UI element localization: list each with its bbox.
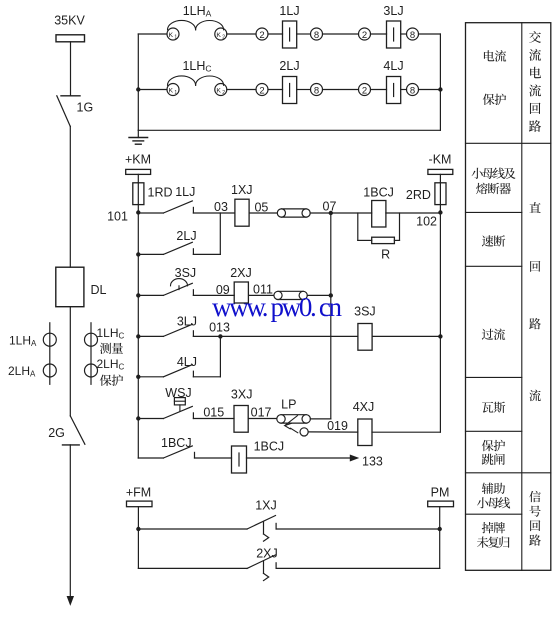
label 3LJ: [177, 314, 197, 328]
terminal 2: [359, 28, 371, 41]
label 1LJ: [175, 185, 195, 199]
label 1XJ: [231, 183, 253, 197]
svg-text:R: R: [381, 248, 390, 262]
label 1BCJ: [254, 439, 285, 453]
contact 3SJ time-delay: [163, 279, 193, 296]
node: [136, 527, 140, 531]
wire: [193, 335, 358, 337]
svg-text:1LHA: 1LHA: [183, 4, 212, 18]
label 4LJ: [177, 355, 197, 369]
connecting link LP open: [277, 415, 311, 436]
circuit breaker DL: [56, 267, 84, 307]
svg-text:102: 102: [416, 215, 437, 229]
wire: [249, 294, 274, 296]
label 3LJ: [383, 4, 403, 18]
label 2LJ: [279, 59, 299, 73]
wire feeder outgoing arrow: [67, 445, 73, 605]
wire: [394, 213, 399, 240]
svg-text:2XJ: 2XJ: [230, 266, 252, 280]
label 2LHA: [8, 364, 36, 379]
label 2LHc 保护: [97, 357, 125, 386]
terminal 8: [311, 28, 323, 41]
label 2XJ: [256, 546, 278, 560]
svg-text:PM: PM: [431, 486, 450, 500]
bus PM: [428, 486, 454, 529]
wire: [137, 34, 139, 130]
label 05: [254, 201, 268, 215]
CT secondary 1LHc: [167, 76, 227, 96]
wire node03 branch: [219, 213, 221, 254]
wire: [138, 529, 439, 568]
svg-text:1LHA: 1LHA: [9, 333, 37, 348]
label 1G: [77, 101, 94, 115]
wire: [227, 89, 256, 91]
wire: [310, 212, 372, 214]
contact 3LJ: [163, 324, 193, 336]
svg-text:K: K: [169, 87, 174, 94]
svg-text:101: 101: [107, 210, 128, 224]
label 1LHA: [9, 333, 37, 348]
svg-text:1RD: 1RD: [148, 186, 173, 200]
wire: [69, 307, 71, 416]
label 3SJ: [354, 305, 376, 319]
wire: [219, 336, 221, 376]
label 011: [253, 283, 273, 297]
svg-text:DL: DL: [91, 283, 107, 297]
svg-text:3LJ: 3LJ: [177, 314, 197, 328]
svg-text:2: 2: [222, 90, 225, 96]
svg-text:+FM: +FM: [126, 486, 151, 500]
svg-text:2LJ: 2LJ: [176, 229, 196, 243]
relay 1LJ coil: [283, 21, 297, 48]
svg-text:1XJ: 1XJ: [231, 183, 253, 197]
contact 1BCJ: [163, 446, 194, 458]
wire: [138, 567, 247, 569]
wire: [195, 457, 232, 459]
node: [438, 334, 442, 338]
wire mid bus: [330, 213, 332, 419]
label 013: [209, 321, 230, 335]
relay 2LJ coil: [283, 77, 297, 104]
wire: [371, 89, 387, 91]
svg-text:+KM: +KM: [125, 153, 151, 167]
CT 2LHc: [85, 364, 98, 377]
wire: [310, 418, 330, 420]
svg-text:www. pw0. cn: www. pw0. cn: [212, 292, 343, 322]
svg-text:35KV: 35KV: [54, 14, 85, 28]
disconnector 2G: [63, 416, 85, 445]
svg-text:K: K: [169, 32, 174, 39]
label 过流: [482, 328, 505, 340]
label 1LJ: [279, 4, 299, 18]
svg-text:017: 017: [251, 406, 272, 420]
CT 2LHA: [43, 364, 56, 377]
wire: [297, 33, 311, 35]
busbar label 35KV: [54, 14, 85, 28]
svg-text:133: 133: [362, 455, 383, 469]
svg-text:2LJ: 2LJ: [279, 59, 299, 73]
contact 2XJ flag: [247, 555, 276, 581]
wire: [138, 33, 167, 35]
svg-text:3LJ: 3LJ: [383, 4, 403, 18]
svg-text:2: 2: [362, 30, 367, 41]
label 1RD: [148, 186, 173, 200]
CT 1LHc: [85, 323, 98, 385]
busbar 35KV: [56, 35, 85, 42]
test link: [277, 209, 310, 217]
svg-text:2: 2: [259, 85, 264, 96]
wire: [193, 376, 220, 378]
contact WSJ gas relay: [163, 398, 193, 419]
bus +KM: [125, 153, 151, 183]
label 1XJ: [255, 499, 277, 513]
wire: [419, 33, 441, 35]
label 015: [203, 406, 224, 420]
label 3SJ: [175, 266, 197, 280]
wire: [249, 212, 277, 214]
terminal 8: [311, 84, 323, 97]
wire: [138, 528, 247, 530]
wire: [372, 335, 440, 337]
svg-text:8: 8: [410, 85, 415, 96]
wire: [248, 418, 276, 420]
node: [438, 527, 442, 531]
wire: [193, 212, 235, 214]
contact 1LJ: [163, 201, 193, 213]
label 掉牌未复归: [477, 522, 510, 548]
wire: [372, 431, 440, 433]
svg-text:1BCJ: 1BCJ: [363, 186, 394, 200]
contact 2LJ: [163, 242, 193, 254]
svg-text:4LJ: 4LJ: [383, 59, 403, 73]
node: [136, 87, 140, 91]
label 路: [529, 318, 541, 329]
label 信号回路: [529, 491, 541, 546]
resistor R: [372, 237, 395, 243]
svg-text:8: 8: [314, 30, 319, 41]
label 1BCJ: [363, 186, 394, 200]
relay 1BCJ coil: [232, 446, 247, 473]
wire: [227, 33, 256, 35]
svg-text:1G: 1G: [77, 101, 94, 115]
label 4XJ: [353, 400, 375, 414]
svg-text:2: 2: [259, 30, 264, 41]
bus -KM: [428, 153, 453, 183]
svg-text:4LJ: 4LJ: [177, 355, 197, 369]
wire: [138, 335, 163, 337]
wire left bus: [137, 213, 139, 459]
svg-text:2: 2: [222, 34, 225, 40]
test link: [274, 291, 307, 299]
relay 1BCJ coil: [372, 201, 386, 228]
terminal 2: [256, 84, 268, 97]
wire: [138, 89, 167, 91]
label LP: [281, 398, 296, 412]
label 1LHc: [182, 59, 211, 74]
relay 4XJ coil: [358, 419, 372, 446]
node: [136, 416, 140, 420]
bus +FM: [126, 486, 152, 529]
disconnector 1G: [57, 96, 80, 127]
label 4LJ: [383, 59, 403, 73]
label 回: [530, 261, 540, 272]
label 1LHA: [183, 4, 212, 18]
node 101: [107, 210, 140, 224]
contact 4LJ: [163, 365, 193, 377]
label 速断: [482, 235, 505, 246]
CT 1LHA: [43, 323, 56, 385]
svg-text:1LJ: 1LJ: [175, 185, 195, 199]
wire: [69, 126, 71, 267]
svg-text:3SJ: 3SJ: [354, 305, 376, 319]
svg-text:2XJ: 2XJ: [256, 546, 278, 560]
wire: [323, 89, 359, 91]
svg-text:1LHC: 1LHC: [182, 59, 211, 74]
wire: [308, 431, 358, 433]
svg-text:K: K: [216, 32, 221, 39]
wire: [138, 294, 163, 296]
label 瓦斯: [482, 402, 505, 413]
wire: [276, 567, 440, 569]
node 07: [323, 200, 337, 216]
table frame: [466, 23, 551, 571]
wire: [193, 418, 234, 420]
svg-text:05: 05: [254, 201, 268, 215]
wire right bus: [439, 213, 441, 433]
wire: [138, 253, 163, 255]
wire: [439, 34, 441, 130]
wire: [419, 89, 441, 91]
fuse 2RD: [435, 183, 446, 213]
svg-text:3XJ: 3XJ: [231, 388, 253, 402]
label 电流保护: [483, 50, 506, 105]
wire: [276, 528, 440, 530]
label 小母线及熔断器: [472, 168, 516, 195]
label 3XJ: [231, 388, 253, 402]
contact 1XJ flag: [247, 516, 276, 542]
wire: [401, 89, 407, 91]
wire: [386, 212, 441, 214]
svg-text:1LJ: 1LJ: [279, 4, 299, 18]
svg-text:03: 03: [214, 200, 228, 214]
label 2XJ: [230, 266, 252, 280]
wire: [70, 42, 72, 95]
label 1LHc 测量: [97, 326, 125, 354]
svg-text:K: K: [216, 87, 221, 94]
label 09: [216, 283, 230, 297]
fuse 1RD: [133, 183, 144, 213]
wire: [297, 89, 311, 91]
label WSJ: [165, 386, 191, 400]
label 保护跳闸: [482, 440, 505, 465]
wire: [138, 129, 440, 131]
label 2LJ: [176, 229, 196, 243]
wire: [268, 89, 283, 91]
svg-text:8: 8: [410, 30, 415, 41]
label 辅助小母线: [477, 483, 510, 509]
relay 3XJ coil: [234, 406, 248, 433]
node: [136, 252, 140, 256]
relay 3SJ coil: [358, 324, 372, 351]
wire: [401, 33, 407, 35]
label 直: [529, 202, 540, 213]
label R: [381, 248, 390, 262]
watermark: [212, 292, 343, 322]
label 1BCJ: [161, 436, 192, 450]
svg-text:019: 019: [327, 419, 348, 433]
wire: [268, 33, 283, 35]
wire arrow 133: [247, 455, 383, 469]
wire: [358, 213, 372, 240]
wire: [323, 33, 359, 35]
CT secondary 1LHA: [167, 20, 227, 40]
svg-text:2RD: 2RD: [406, 188, 431, 202]
svg-text:WSJ: WSJ: [165, 386, 191, 400]
node: [218, 334, 222, 338]
svg-text:8: 8: [314, 85, 319, 96]
label 交流电流回路: [529, 31, 541, 132]
terminal 2: [256, 28, 268, 41]
svg-text:1: 1: [174, 34, 177, 40]
ground: [129, 130, 148, 144]
label 03: [214, 200, 228, 214]
wire: [138, 376, 163, 378]
svg-text:1LHC: 1LHC: [97, 326, 125, 341]
label 017: [251, 406, 272, 420]
relay 4LJ coil: [387, 77, 401, 104]
label 019: [327, 419, 348, 433]
svg-text:1: 1: [174, 90, 177, 96]
node 102: [416, 210, 442, 228]
svg-text:2G: 2G: [48, 426, 65, 440]
svg-text:-KM: -KM: [429, 153, 452, 167]
wire: [371, 33, 387, 35]
svg-text:LP: LP: [281, 398, 296, 412]
node: [438, 87, 442, 91]
relay 2XJ coil: [234, 282, 248, 303]
node: [329, 293, 333, 297]
svg-text:013: 013: [209, 321, 230, 335]
label DL: [91, 283, 107, 297]
svg-text:2LHA: 2LHA: [8, 364, 36, 379]
relay 3LJ coil: [387, 21, 401, 48]
svg-text:4XJ: 4XJ: [353, 400, 375, 414]
wire: [193, 294, 234, 296]
label 流: [529, 390, 540, 402]
node: [136, 375, 140, 379]
svg-text:1BCJ: 1BCJ: [161, 436, 192, 450]
wire: [138, 457, 163, 459]
wire: [138, 418, 163, 420]
svg-text:015: 015: [203, 406, 224, 420]
svg-text:3SJ: 3SJ: [175, 266, 197, 280]
svg-text:1BCJ: 1BCJ: [254, 439, 285, 453]
wire: [307, 294, 331, 296]
node: [136, 293, 140, 297]
svg-text:2LHC: 2LHC: [97, 357, 125, 372]
svg-text:1XJ: 1XJ: [255, 499, 277, 513]
wire: [138, 212, 163, 214]
label 2G: [48, 426, 65, 440]
terminal 8: [407, 84, 419, 97]
label 2RD: [406, 188, 431, 202]
svg-text:07: 07: [323, 200, 337, 214]
terminal 8: [407, 28, 419, 41]
svg-text:2: 2: [362, 85, 367, 96]
relay 1XJ coil: [235, 199, 249, 226]
node: [136, 334, 140, 338]
wire: [193, 253, 220, 255]
terminal 2: [359, 84, 371, 97]
